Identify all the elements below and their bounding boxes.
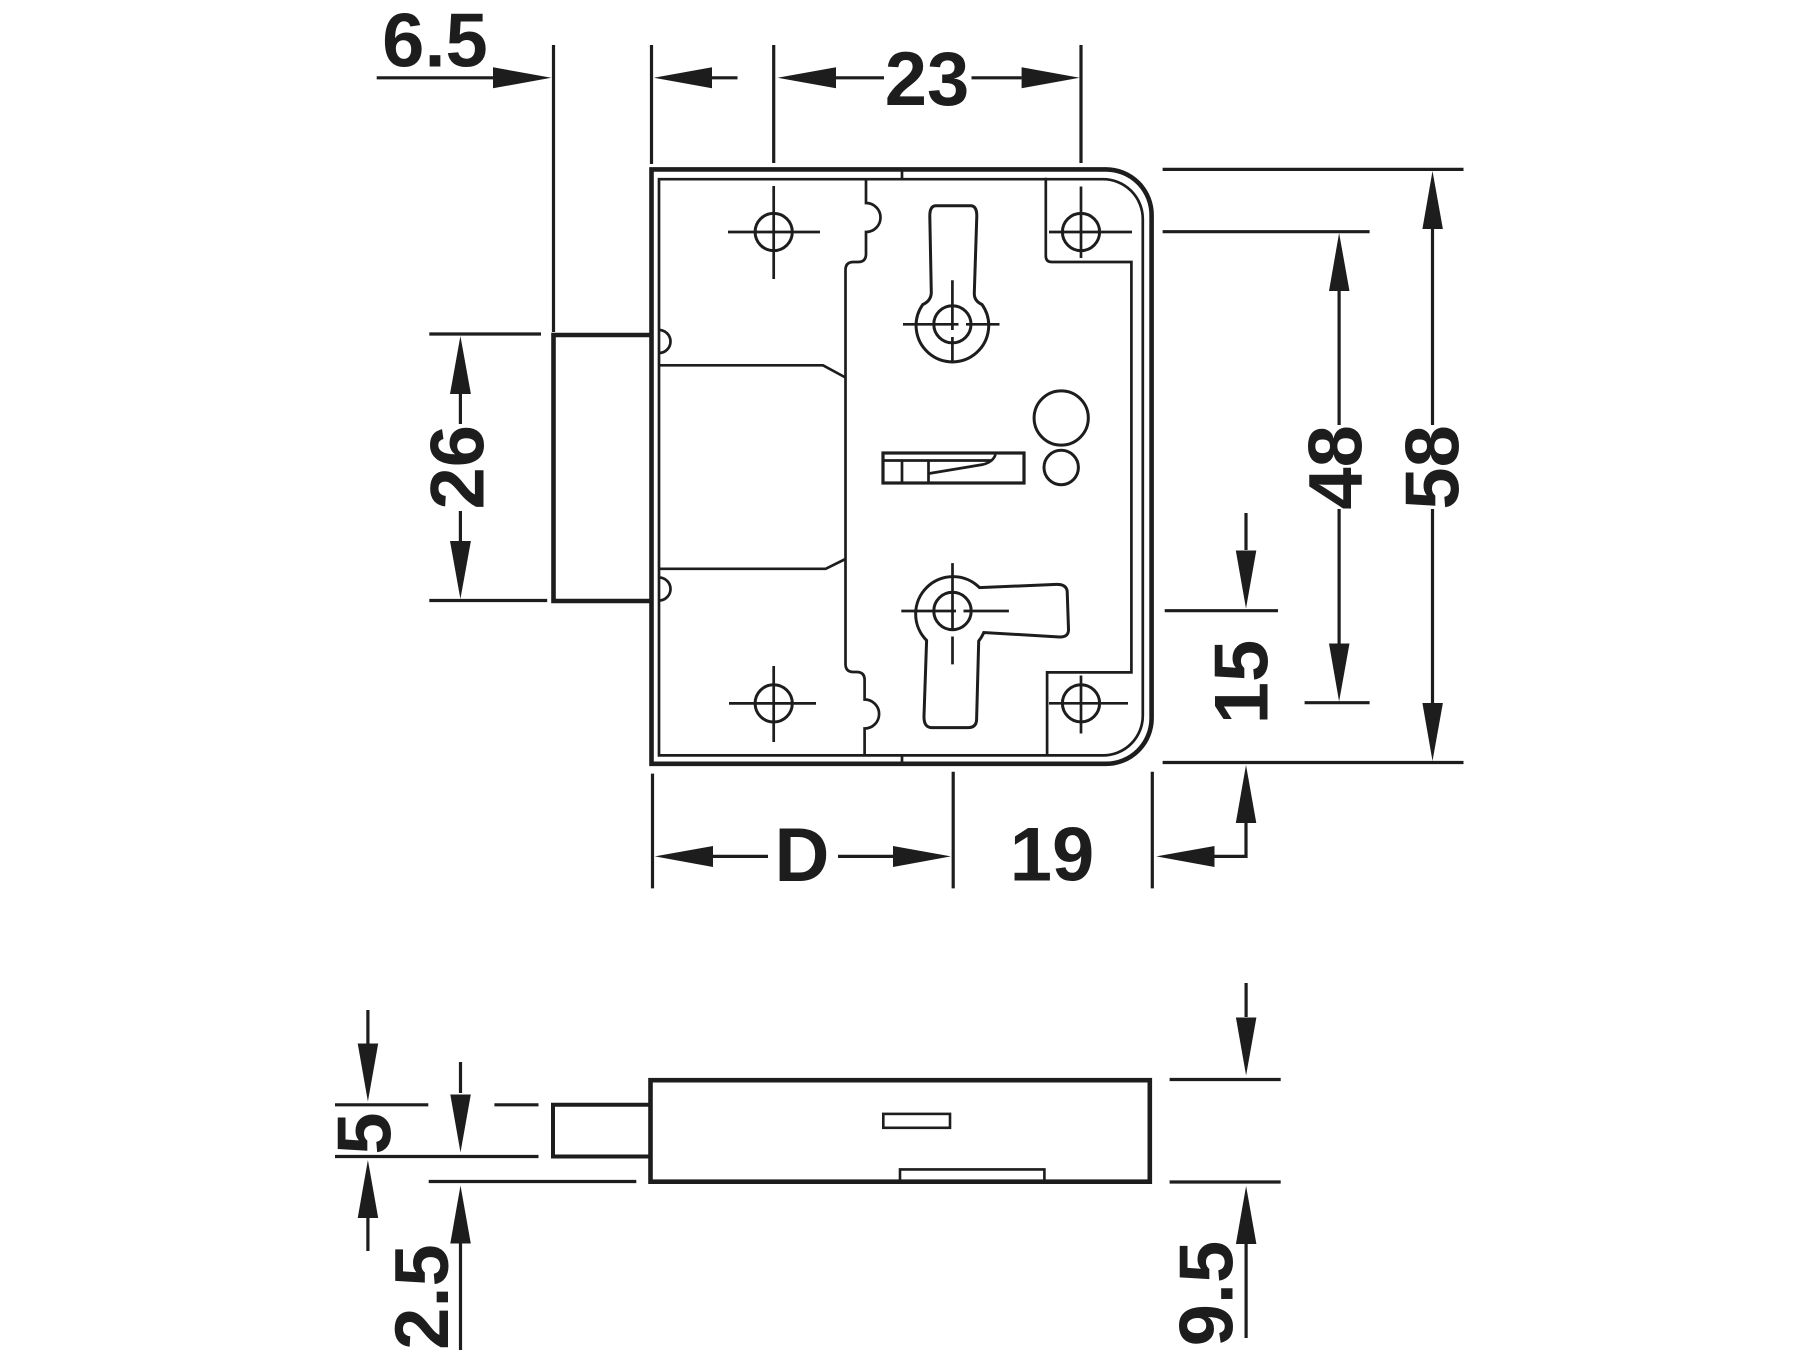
case inner rim line — [659, 179, 1143, 755]
seam tick top — [901, 170, 904, 179]
dimension 48 — [1329, 233, 1350, 291]
keyhole lower: crosshair — [901, 563, 1009, 664]
profile body (bottom view) — [651, 1080, 1150, 1182]
screw hole top-left — [755, 213, 792, 250]
circle large (pin) — [1034, 391, 1088, 445]
screw hole bottom-right — [1062, 685, 1099, 722]
svg-text:26: 26 — [416, 425, 501, 510]
dimension 26: arrows — [450, 336, 471, 394]
svg-text:23: 23 — [885, 37, 970, 122]
profile bolt — [553, 1105, 651, 1157]
circle small (pin) — [1044, 450, 1078, 484]
right extension lines: 15 top, screw bottom, body bottom — [1163, 611, 1464, 763]
notch on inner left line (upper) — [659, 330, 671, 353]
notch on inner left line (lower) — [659, 578, 671, 601]
latch spring inner line — [883, 459, 991, 462]
latch spring detail rectangle — [883, 453, 1024, 483]
dimension 26: extension lines — [429, 334, 547, 601]
plate mid window top edge with chamfer — [659, 365, 846, 377]
plate right edge with screw tabs — [1046, 178, 1132, 756]
svg-text:15: 15 — [1200, 640, 1285, 725]
lock case outer outline (top view) — [652, 169, 1152, 763]
key upper: hole — [934, 306, 971, 343]
profile bottom slot — [900, 1169, 1044, 1180]
dimension 9.5: extension lines — [1170, 1080, 1281, 1183]
bolt (latch) top view — [554, 335, 652, 601]
svg-text:5: 5 — [323, 1112, 408, 1154]
svg-text:48: 48 — [1294, 425, 1379, 510]
plate left divider with notch (upper) — [846, 179, 881, 755]
dimension 9.5 arrows — [1244, 983, 1247, 1017]
dimension 58 — [1422, 171, 1443, 229]
dimension D arrows — [655, 846, 713, 867]
profile top slot — [883, 1114, 950, 1128]
svg-text:19: 19 — [1010, 813, 1095, 898]
screw hole top-right — [1062, 213, 1099, 250]
dimension D and 19: extension lines — [653, 772, 1153, 889]
plate mid window bottom edge with chamfer — [659, 559, 846, 569]
latch spring small box verticals — [902, 461, 929, 484]
svg-text:2.5: 2.5 — [380, 1244, 465, 1350]
dimension 2.5: extension line — [429, 1180, 637, 1183]
dimension 19 arrow — [1156, 846, 1214, 867]
dimension 23: arrows and line — [778, 67, 837, 88]
keyhole lower: hole — [934, 592, 971, 629]
dimension 6.5: line and arrows — [377, 76, 495, 79]
key upper: stem and boss outline — [916, 206, 989, 362]
key upper: crosshair — [903, 280, 1000, 363]
keyhole lower: boss, stem down, wing right — [916, 577, 1069, 728]
seam tick bottom — [901, 755, 904, 763]
dimension 23: extension lines — [774, 45, 1081, 163]
dimension 15 — [1244, 513, 1247, 550]
svg-text:9.5: 9.5 — [1165, 1241, 1250, 1347]
dimension 5 arrows — [366, 1010, 369, 1044]
dimension 6.5: extension lines — [554, 45, 652, 332]
dimension 5: extension lines — [335, 1105, 539, 1157]
latch spring diagonal — [929, 455, 996, 474]
svg-text:58: 58 — [1391, 425, 1476, 510]
screw hole bottom-left — [755, 685, 792, 722]
right extension lines: body top, screw top — [1163, 169, 1464, 231]
svg-text:D: D — [775, 813, 830, 898]
dimension 2.5 arrows — [459, 1062, 462, 1093]
svg-text:6.5: 6.5 — [382, 0, 488, 84]
